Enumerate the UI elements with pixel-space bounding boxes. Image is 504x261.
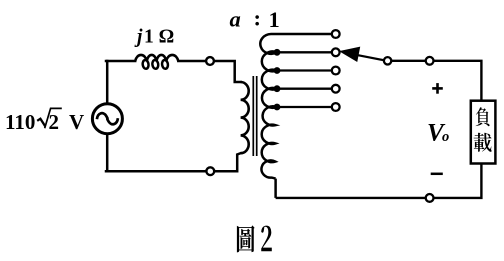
tap junction dot 4 [274,104,281,111]
label plus [432,83,443,94]
tap terminal circle 3 [332,67,340,75]
svg-text:2: 2 [49,110,60,134]
label minus [431,173,443,176]
label 110sqrt2 V [5,110,84,134]
transformer primary winding [241,82,249,153]
tap terminal circle 2 [332,48,340,56]
tap terminal circle 1 [332,30,340,38]
wire pivot to top-right terminal [391,60,425,62]
wire top terminal to transformer primary lead [215,61,241,82]
ac source VS 110sqrt2 V [92,104,122,134]
svg-text:V: V [69,110,84,134]
wire bottom terminal to primary bottom lead [215,153,241,171]
label j1 ohm [134,27,174,48]
load label glyph fu [476,107,490,126]
selector arrowhead [340,47,359,61]
tap wire 1 [277,51,332,53]
tap terminal circle 4 [332,85,340,93]
svg-text:1 Ω: 1 Ω [144,27,174,48]
tap junction dot 3 [274,85,281,92]
caption glyph tu [237,225,255,252]
inductor j1 ohm [135,55,178,61]
selector pivot circle [384,57,391,64]
tap wire 4 [277,106,332,108]
wire secondary bottom lead [274,179,277,198]
tap wire 3 [277,88,332,90]
wire top horizontal to inductor [106,60,135,63]
label a : 1 [230,5,280,32]
terminal node top right (open circle) [426,57,434,65]
wire bottom terminal to secondary lead [276,197,426,199]
selector arm wire [356,55,384,61]
terminal node bottom (open circle) [206,167,214,175]
terminal node top (open circle) [206,57,214,65]
transformer core line 1 [252,76,254,156]
wire inductor to top terminal [178,60,205,63]
terminal node bottom right (open circle) [426,194,434,202]
svg-text::: : [254,5,262,30]
load label glyph zai [474,133,492,152]
wire left vertical top (source to top-left corner) [106,61,109,104]
radical sign of sqrt [37,119,45,127]
tap junction dot 2 [274,67,281,74]
wire terminal to load top [434,61,482,100]
svg-text:o: o [442,129,449,145]
wire bottom horizontal to bottom terminal [106,170,206,173]
load box [471,101,496,164]
transformer core line 2 [256,76,258,156]
tap wire 2 [277,69,332,71]
svg-text:a: a [230,6,241,31]
wire left vertical bottom (source to bottom wire) [106,134,109,171]
caption glyph 2 [261,226,272,252]
wire load bottom to bottom wire [434,164,482,198]
tap terminal circle 5 [332,103,340,111]
svg-text:110: 110 [5,110,35,134]
transformer secondary winding with taps [260,34,331,179]
svg-text:1: 1 [269,7,280,32]
tap junction dot 1 [274,49,281,56]
